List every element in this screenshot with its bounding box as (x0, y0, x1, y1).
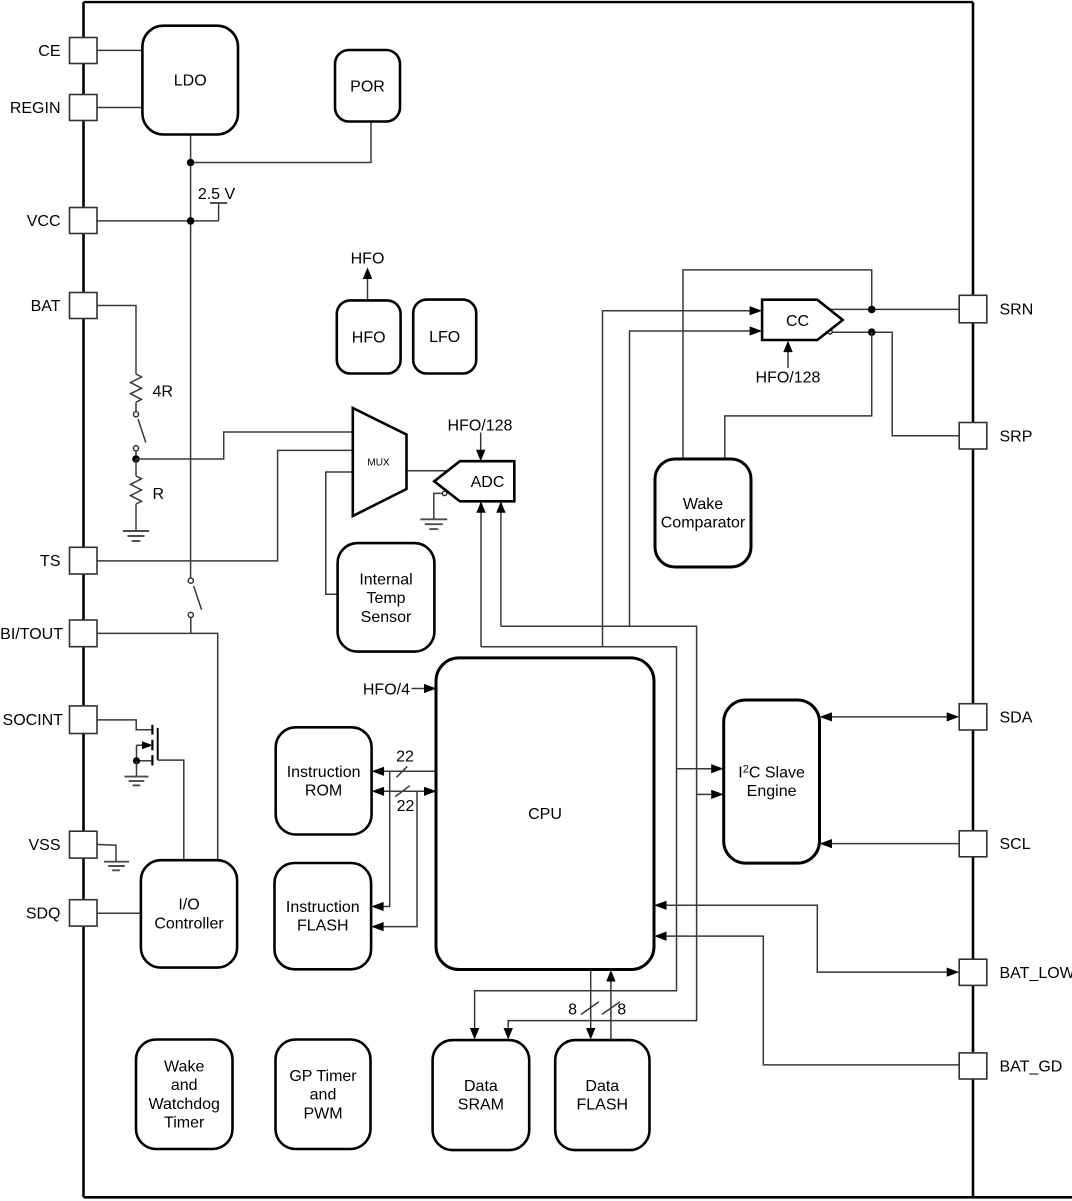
block POR (335, 50, 400, 122)
bus branch into Instruction FLASH upper (371, 771, 390, 911)
resistor 4R (131, 374, 142, 402)
wire net A: ADC input 1 from bus (to I2C and Data SRAM) (470, 501, 677, 1039)
svg-text:ROM: ROM (305, 783, 342, 800)
pin SCL (959, 831, 1031, 857)
wire MUX output to ADC (407, 470, 450, 472)
wire VCC to 2.5V stub (96, 220, 219, 222)
svg-text:and: and (171, 1077, 198, 1094)
wire HFO/128 arrow into ADC top (476, 433, 485, 462)
wire CC input 1 (603, 306, 763, 647)
wire VSS to ground (96, 844, 116, 861)
wire REGIN to LDO (96, 107, 143, 109)
resistor R (131, 459, 142, 531)
svg-text:GP Timer: GP Timer (289, 1068, 357, 1085)
wire MOSFET source to ground (136, 761, 138, 777)
ground below ADC (420, 519, 447, 529)
wire BAT to divider (96, 306, 136, 375)
block Data FLASH (555, 1040, 649, 1150)
svg-text:8: 8 (617, 1001, 626, 1018)
pin SRP (959, 423, 1032, 450)
block I/O Controller (141, 860, 237, 967)
wire CC output to SRN (829, 308, 960, 310)
pin SDQ (26, 900, 97, 926)
wire HFO/4 arrow into CPU (412, 684, 437, 693)
wire BAT_LOW net into CPU and BAT_LOW pin (654, 901, 959, 977)
block GP Timer and PWM (276, 1040, 371, 1150)
connection circle on CC edge (828, 330, 832, 334)
wire ADC ground stub (434, 493, 444, 519)
svg-text:Internal: Internal (359, 572, 412, 589)
svg-text:22: 22 (396, 749, 414, 766)
svg-text:and: and (310, 1087, 337, 1104)
wire CC input 2 (630, 326, 763, 626)
block Wake and Watchdog Timer (136, 1040, 233, 1150)
svg-text:22: 22 (397, 798, 415, 815)
svg-text:8: 8 (568, 1001, 577, 1018)
wire top rail from SRN net to Wake Comparator (683, 270, 872, 460)
wire net B: ADC input 2 from bus (to I2C and Data SRAM) (496, 501, 696, 1039)
svg-text:Instruction: Instruction (286, 899, 360, 916)
svg-text:FLASH: FLASH (577, 1097, 629, 1114)
svg-text:POR: POR (350, 78, 385, 95)
node junction SRN net (868, 306, 876, 314)
pin BAT_LOW (959, 959, 1072, 985)
svg-text:SDA: SDA (1000, 709, 1033, 726)
svg-text:VCC: VCC (27, 213, 61, 230)
block HFO (337, 300, 401, 373)
block I2C Slave Engine (724, 700, 820, 863)
pin SDA (959, 704, 1033, 730)
svg-text:SRP: SRP (1000, 428, 1033, 445)
svg-text:I2C Slave: I2C Slave (738, 763, 805, 781)
svg-text:4R: 4R (153, 384, 173, 401)
svg-text:Timer: Timer (164, 1115, 205, 1132)
svg-text:Wake: Wake (683, 496, 723, 513)
transistor Q1 MOSFET (137, 725, 158, 766)
svg-text:2.5 V: 2.5 V (198, 186, 236, 203)
node junction VCC/rail (187, 217, 195, 225)
ground at VSS (104, 862, 129, 871)
power symbol 2.5 V (210, 203, 227, 221)
svg-text:HFO/128: HFO/128 (448, 417, 513, 434)
bus Instruction ROM to CPU (22) (372, 786, 437, 797)
svg-text:FLASH: FLASH (297, 918, 349, 935)
node divider tap (132, 455, 140, 463)
block Instruction ROM (276, 727, 372, 834)
svg-text:I/O: I/O (178, 897, 199, 914)
pin BAT_GD (959, 1053, 1062, 1079)
svg-text:SDQ: SDQ (26, 905, 61, 922)
wire HFO/128 arrow into CC bottom (783, 341, 792, 368)
block LDO (142, 26, 238, 135)
svg-text:Data: Data (585, 1078, 619, 1095)
adc ADC (434, 461, 514, 501)
bus CPU to Instruction ROM (22) (372, 766, 437, 777)
svg-text:TS: TS (40, 553, 60, 570)
svg-text:CC: CC (786, 313, 809, 330)
svg-text:HFO: HFO (352, 330, 386, 347)
pin CE (38, 38, 97, 64)
wire MOSFET drain to I/O Controller (158, 760, 184, 861)
svg-text:LFO: LFO (429, 329, 460, 346)
mux MUX (353, 408, 407, 516)
wire Internal Temp Sensor to MUX input 3 (326, 472, 353, 594)
svg-text:LDO: LDO (174, 73, 207, 90)
svg-text:HFO/128: HFO/128 (756, 369, 821, 386)
svg-text:SRN: SRN (1000, 302, 1034, 319)
svg-text:CE: CE (38, 43, 60, 60)
pin TS (40, 547, 97, 574)
cc CC coulomb counter (762, 300, 843, 340)
svg-text:BAT_LOW: BAT_LOW (1000, 965, 1072, 982)
wire HFO arrow above HFO oscillator (363, 268, 373, 300)
wire LDO output rail 2.5V vertical (190, 134, 192, 578)
svg-text:Sensor: Sensor (361, 609, 412, 626)
block LFO (413, 300, 476, 374)
pin BAT (31, 293, 97, 319)
wire branch net A into I2C Slave Engine (677, 764, 724, 773)
wire SRP net to Wake Comparator (725, 332, 872, 460)
wire SCL into I2C Slave Engine (820, 839, 961, 848)
switch S1 open contacts (133, 412, 145, 459)
svg-text:CPU: CPU (528, 806, 562, 823)
pin REGIN (10, 95, 97, 121)
svg-text:Engine: Engine (747, 783, 797, 800)
svg-text:BAT: BAT (31, 298, 61, 315)
block Instruction FLASH (275, 863, 372, 969)
svg-text:Comparator: Comparator (661, 515, 746, 532)
node MOSFET source junction (133, 757, 140, 764)
block CPU (436, 658, 654, 970)
svg-text:HFO: HFO (351, 251, 385, 268)
pin VSS (28, 831, 97, 858)
wire branch net B into I2C Slave Engine (697, 790, 724, 799)
svg-text:BAT_GD: BAT_GD (1000, 1059, 1063, 1076)
wire BAT_GD net into CPU and BAT_GD pin (654, 932, 960, 1065)
svg-text:Instruction: Instruction (287, 764, 361, 781)
wire SDQ to I/O Controller (96, 912, 142, 914)
svg-text:REGIN: REGIN (10, 100, 61, 117)
ground below R (123, 531, 149, 541)
svg-text:Temp: Temp (366, 590, 405, 607)
switch S2 on 2.5V rail (188, 578, 201, 633)
svg-text:BI/TOUT: BI/TOUT (0, 626, 63, 643)
svg-text:HFO/4: HFO/4 (363, 681, 410, 698)
node junction SRP net (868, 328, 876, 336)
wire SDA bidirectional arrow (820, 712, 960, 721)
svg-text:MUX: MUX (367, 458, 390, 469)
pin SRN (959, 295, 1033, 323)
svg-text:SCL: SCL (1000, 836, 1031, 853)
wire BI/TOUT to I/O Controller (96, 633, 218, 861)
svg-text:SRAM: SRAM (458, 1097, 504, 1114)
svg-text:PWM: PWM (303, 1105, 342, 1122)
wire CC lower terminal to SRP net (829, 332, 960, 436)
pin BI/TOUT (0, 620, 97, 647)
block Data SRAM (433, 1040, 530, 1150)
svg-text:VSS: VSS (28, 837, 60, 854)
bus CPU to Data FLASH (8) (581, 970, 599, 1040)
wire TS to MUX input 2 (96, 450, 353, 561)
wire POR to rail (191, 121, 371, 163)
svg-text:Wake: Wake (164, 1059, 204, 1076)
pin VCC (27, 208, 97, 234)
wire CE to LDO (96, 49, 143, 51)
ground below MOSFET (125, 777, 149, 786)
svg-text:Controller: Controller (154, 915, 224, 932)
pin SOCINT (3, 706, 97, 734)
block Wake Comparator (655, 459, 751, 567)
node junction LDO/POR (187, 159, 195, 167)
block Internal Temp Sensor (338, 543, 435, 652)
svg-text:Watchdog: Watchdog (148, 1096, 219, 1113)
svg-text:ADC: ADC (471, 474, 505, 491)
bus branch into Instruction FLASH lower (371, 791, 417, 931)
bus Data FLASH to CPU (8) (602, 970, 620, 1040)
svg-text:Data: Data (464, 1078, 498, 1095)
connection circle on ADC edge (442, 491, 446, 495)
svg-text:R: R (153, 486, 165, 503)
wire SOCINT to MOSFET gate (96, 720, 152, 730)
wire 4R to switch (135, 402, 137, 411)
wire divider tap to MUX input 1 (136, 432, 353, 459)
svg-text:SOCINT: SOCINT (3, 712, 64, 729)
